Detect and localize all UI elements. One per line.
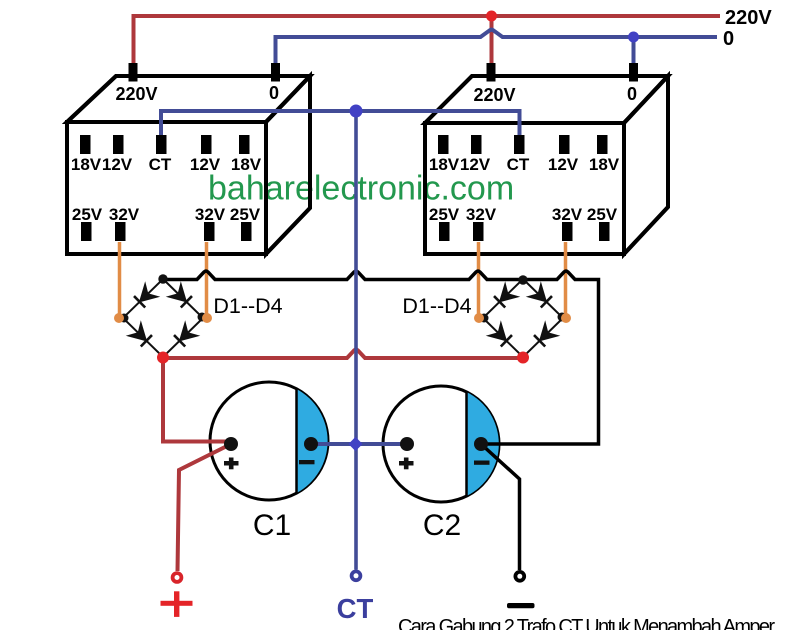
svg-text:CT: CT <box>149 155 172 174</box>
svg-text:18V: 18V <box>71 155 102 174</box>
svg-text:12V: 12V <box>460 155 491 174</box>
svg-text:18V: 18V <box>429 155 460 174</box>
svg-text:32V: 32V <box>552 205 583 224</box>
svg-text:baharelectronic.com: baharelectronic.com <box>208 170 514 208</box>
svg-text:220V: 220V <box>473 85 515 105</box>
svg-text:12V: 12V <box>190 155 221 174</box>
svg-text:12V: 12V <box>548 155 579 174</box>
svg-text:18V: 18V <box>231 155 262 174</box>
svg-text:32V: 32V <box>195 205 226 224</box>
svg-text:25V: 25V <box>230 205 261 224</box>
svg-text:D1--D4: D1--D4 <box>402 294 471 318</box>
svg-text:C2: C2 <box>423 509 461 542</box>
svg-text:18V: 18V <box>589 155 620 174</box>
svg-text:220V: 220V <box>725 7 772 29</box>
svg-text:32V: 32V <box>466 205 497 224</box>
svg-text:CT: CT <box>337 593 374 624</box>
svg-text:CT: CT <box>507 155 530 174</box>
svg-text:12V: 12V <box>102 155 133 174</box>
svg-text:32V: 32V <box>109 205 140 224</box>
svg-text:0: 0 <box>723 28 734 50</box>
svg-text:25V: 25V <box>72 205 103 224</box>
svg-text:25V: 25V <box>429 205 460 224</box>
svg-text:D1--D4: D1--D4 <box>213 294 282 318</box>
svg-text:C1: C1 <box>253 509 291 542</box>
svg-text:25V: 25V <box>587 205 618 224</box>
svg-text:220V: 220V <box>115 84 157 104</box>
svg-text:Cara Gabung 2 Trafo CT Untuk M: Cara Gabung 2 Trafo CT Untuk Menambah Am… <box>398 616 775 630</box>
svg-text:0: 0 <box>269 83 279 103</box>
svg-text:0: 0 <box>627 84 637 104</box>
